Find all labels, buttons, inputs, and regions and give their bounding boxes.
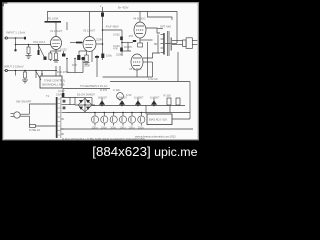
resistor boxes psu right bbox=[167, 98, 171, 105]
bridge diode D2 bbox=[86, 100, 90, 103]
svg-text:0.022: 0.022 bbox=[60, 48, 67, 52]
svg-text:220K: 220K bbox=[116, 53, 122, 57]
tube V5 bbox=[131, 54, 143, 70]
svg-text:VOL 1M A: VOL 1M A bbox=[33, 40, 45, 44]
middle rails bbox=[103, 76, 153, 78]
wire bias box out bbox=[172, 118, 190, 120]
svg-text:INPUT 1 1.5mV: INPUT 1 1.5mV bbox=[7, 31, 26, 35]
edge softening right bbox=[198, 2, 199, 140]
capacitor C3 bbox=[62, 54, 65, 57]
wire y42.5 bbox=[122, 42, 133, 44]
edge softening bottom bbox=[2, 138, 199, 141]
cap blob under box bbox=[62, 93, 65, 97]
wire y30 bbox=[103, 29, 123, 31]
svg-text:470: 470 bbox=[129, 34, 134, 38]
screen lead V2 bbox=[97, 43, 103, 45]
svg-text:R1 100K: R1 100K bbox=[48, 17, 59, 21]
capacitor C11 bbox=[101, 116, 108, 123]
OPT core bbox=[166, 31, 168, 56]
svg-text:D1-D4 1N4007: D1-D4 1N4007 bbox=[77, 93, 95, 97]
psu rail top bbox=[92, 105, 185, 107]
V5 plate to OPT bbox=[143, 53, 160, 58]
svg-text:R 470: R 470 bbox=[100, 88, 108, 92]
svg-text:R 10K: R 10K bbox=[164, 94, 172, 98]
transformer T1 stubs bbox=[62, 97, 78, 99]
box PSU right bbox=[147, 114, 172, 125]
wire x147.5 bbox=[147, 42, 149, 77]
capacitor C10 bbox=[91, 116, 98, 123]
pot VR1 bbox=[38, 45, 40, 51]
ground under V2 bbox=[84, 62, 90, 64]
svg-text:1N4007: 1N4007 bbox=[134, 96, 144, 100]
ground symbols bbox=[22, 56, 90, 83]
diode D7 bbox=[135, 100, 141, 105]
wire to bias box bbox=[145, 106, 147, 115]
wire grid tube V2 bbox=[70, 42, 83, 44]
lamp PL1 bbox=[117, 93, 124, 100]
OPT winding columns bbox=[163, 33, 165, 55]
fuse F1 bbox=[30, 125, 36, 128]
wire grid tube1 bbox=[16, 44, 51, 46]
resistor R8 input2 bbox=[24, 72, 27, 78]
svg-text:R10 470K: R10 470K bbox=[57, 70, 69, 74]
svg-text:100u: 100u bbox=[106, 54, 112, 58]
input 1 wire bbox=[8, 37, 26, 39]
wire input2 shunt bbox=[15, 71, 17, 76]
ground input2 bbox=[22, 79, 28, 81]
OPT primary left rail bbox=[158, 28, 164, 30]
psu rail mid bbox=[66, 112, 190, 114]
wire to block box bbox=[41, 71, 43, 77]
diode ticks bbox=[101, 98, 103, 101]
bridge diode D4 bbox=[86, 107, 90, 110]
tube V4 feed bbox=[139, 12, 141, 23]
secondary wires bbox=[172, 40, 183, 42]
schematic paper bbox=[2, 2, 199, 140]
pot VR2 bbox=[35, 71, 37, 79]
transformer T1 primary winding bbox=[56, 97, 58, 138]
svg-text:230V: 230V bbox=[56, 93, 62, 97]
svg-text:100u: 100u bbox=[138, 125, 144, 129]
svg-text:1N4007: 1N4007 bbox=[150, 96, 160, 100]
wire phase splitter vertical bbox=[121, 30, 123, 56]
diode D6 bbox=[119, 100, 125, 105]
svg-text:6.3V AC: 6.3V AC bbox=[148, 77, 158, 81]
svg-text:www.tubeamp.schematics.com 201: www.tubeamp.schematics.com 2013 bbox=[135, 135, 176, 138]
svg-text:47uF 450V: 47uF 450V bbox=[106, 25, 119, 29]
wires box feeds bbox=[55, 66, 57, 76]
capacitor C15 bbox=[138, 116, 145, 123]
blob under V4 bbox=[138, 43, 143, 47]
svg-text:8R: 8R bbox=[154, 42, 157, 46]
power plug AC1 bbox=[14, 112, 20, 118]
resistor R2 drop bbox=[28, 45, 30, 48]
input 2 bus bbox=[8, 70, 58, 72]
capacitor C12 bbox=[110, 116, 117, 123]
resistor R8 leads bbox=[24, 71, 26, 73]
svg-text:OPT 6K6: OPT 6K6 bbox=[160, 25, 172, 29]
svg-text:1K5: 1K5 bbox=[72, 63, 77, 67]
svg-text:47K: 47K bbox=[113, 47, 118, 51]
edge softening top bbox=[2, 1, 199, 4]
corner smudge bbox=[2, 2, 7, 4]
svg-text:SW ON/OFF: SW ON/OFF bbox=[16, 100, 32, 104]
diode D5 bbox=[99, 100, 105, 105]
capacitor C14 bbox=[128, 116, 135, 123]
wire near R1 bbox=[66, 22, 68, 30]
bridge diode D3 bbox=[79, 107, 83, 110]
wire to primary top bbox=[30, 104, 56, 114]
pot body VR1 bbox=[38, 50, 40, 55]
speaker SP1 bbox=[183, 40, 187, 46]
ground rail bottom bbox=[60, 128, 193, 130]
svg-text:220K: 220K bbox=[96, 38, 102, 42]
svg-text:TO HEATERS 6.3V AC: TO HEATERS 6.3V AC bbox=[80, 84, 108, 88]
screen rail bbox=[148, 12, 173, 21]
scan artifact line bbox=[3, 2, 5, 140]
node input1 down bbox=[15, 38, 17, 50]
grid stopper R7 bbox=[133, 40, 136, 42]
svg-text:6.3V: 6.3V bbox=[126, 93, 132, 97]
svg-text:1N4007: 1N4007 bbox=[98, 96, 108, 100]
dark component blobs bbox=[24, 13, 172, 139]
block box bbox=[40, 76, 62, 88]
capacitor C13 bbox=[119, 116, 126, 123]
V4 cathode bbox=[139, 38, 141, 43]
cathode resistor R3 bbox=[55, 53, 58, 60]
resistor R1 plate bbox=[45, 21, 62, 23]
wire to primary bottom bbox=[30, 116, 56, 126]
photo black frame bbox=[0, 0, 204, 162]
svg-text:V4 6L6GC: V4 6L6GC bbox=[133, 17, 146, 21]
svg-text:V2 12AX7: V2 12AX7 bbox=[83, 29, 96, 33]
tube V1 cathode drop bbox=[55, 50, 57, 54]
feedback wire bbox=[177, 52, 179, 82]
bridge diamond outline bbox=[78, 98, 92, 112]
grid resistor R4 bbox=[76, 42, 82, 44]
B+ rail bbox=[48, 12, 178, 44]
tube V4 bbox=[134, 22, 146, 38]
svg-text:V5 6L6GC: V5 6L6GC bbox=[129, 67, 142, 71]
svg-text:6L6GC PUSH-PULL TUBE AMPLIFIER: 6L6GC PUSH-PULL TUBE AMPLIFIER SCHEMATIC… bbox=[62, 137, 145, 141]
bridge diode D1 bbox=[79, 100, 83, 103]
ground under V1 cathode bbox=[53, 60, 59, 62]
svg-text:100u: 100u bbox=[110, 125, 116, 129]
capacitor C8 on x103 bbox=[101, 54, 104, 59]
svg-text:+: + bbox=[100, 5, 102, 9]
screen resistor R6 bbox=[95, 56, 99, 58]
wire drops tone stack bbox=[66, 58, 68, 73]
ground under R2 bbox=[26, 55, 32, 57]
svg-text:0.047: 0.047 bbox=[58, 89, 65, 93]
V5 bottom bbox=[136, 70, 138, 77]
OPT center tap bbox=[165, 43, 177, 45]
edge softening left bbox=[1, 2, 4, 140]
svg-text:1K5: 1K5 bbox=[127, 45, 132, 49]
input jack J1 bbox=[4, 37, 7, 39]
input jack J2 bbox=[4, 69, 7, 71]
wire under V1 left bbox=[50, 60, 52, 62]
diode D8 bbox=[151, 100, 157, 105]
svg-text:V1 12AX7: V1 12AX7 bbox=[50, 29, 63, 33]
tube V2 cathode bbox=[86, 51, 88, 55]
svg-text:C 22n: C 22n bbox=[113, 88, 121, 92]
tube V1 plate feed bbox=[55, 23, 57, 38]
resistor R2 bbox=[27, 47, 30, 54]
svg-text:0.022: 0.022 bbox=[113, 33, 120, 37]
resistor R5 bbox=[85, 55, 88, 62]
caption bar text bbox=[0, 144, 198, 159]
capacitor C6 bbox=[120, 37, 123, 41]
svg-text:BAXANDALL NFB: BAXANDALL NFB bbox=[43, 83, 65, 87]
capacitor C4 bbox=[77, 55, 80, 60]
tube V2 bbox=[83, 37, 96, 52]
tube V2 plate feed bbox=[89, 12, 91, 37]
capacitor C7 bbox=[120, 48, 123, 52]
svg-text:100u: 100u bbox=[92, 125, 98, 129]
cap C2 blob bbox=[44, 57, 47, 60]
wire x152.5 bbox=[152, 62, 154, 77]
blob x83 bbox=[81, 57, 84, 60]
svg-text:T1: T1 bbox=[46, 94, 50, 98]
svg-text:FUSE 2A: FUSE 2A bbox=[29, 128, 40, 132]
electrolytic C5 + bbox=[101, 13, 104, 17]
svg-text:25uF: 25uF bbox=[84, 64, 90, 68]
svg-text:100u: 100u bbox=[120, 125, 126, 129]
capacitor C1 input bbox=[24, 37, 26, 40]
OPT primary ticks bbox=[161, 34, 164, 36]
svg-text:100u: 100u bbox=[129, 125, 135, 129]
caps ticks bbox=[94, 113, 96, 116]
tube V1 bbox=[51, 37, 62, 50]
wire grid lower tube bbox=[128, 43, 131, 52]
svg-text:INPUT 2 150mV: INPUT 2 150mV bbox=[4, 65, 24, 69]
svg-text:BIAS ADJ -52V: BIAS ADJ -52V bbox=[149, 118, 167, 122]
svg-text:100u: 100u bbox=[101, 125, 107, 129]
plate V4 to OPT bbox=[146, 28, 160, 33]
tiny gray labels bbox=[4, 5, 176, 142]
bridge wires bbox=[78, 97, 92, 99]
svg-text:B+ 420V: B+ 420V bbox=[118, 6, 129, 10]
node B+ cap drop bbox=[102, 7, 104, 60]
junction dots bbox=[14, 29, 155, 113]
svg-text:TONE CONTROL: TONE CONTROL bbox=[44, 79, 66, 83]
psu input blobs bbox=[63, 100, 66, 103]
